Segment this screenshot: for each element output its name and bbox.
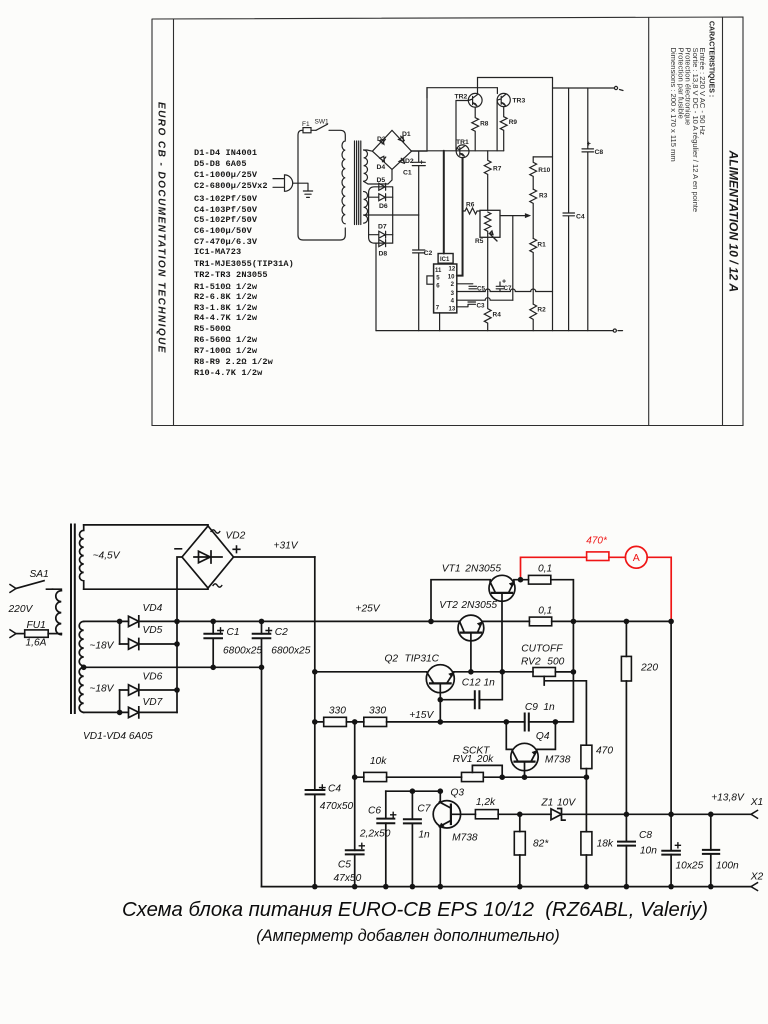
svg-text:Z1: Z1 (540, 798, 553, 809)
junction node (314.8,721.9) (312, 719, 318, 725)
wire 0,1 upper to output (551, 580, 574, 622)
resistor R2 (530, 304, 537, 331)
transistor TR1 (456, 145, 469, 158)
diode D2 mark (399, 158, 405, 163)
svg-text:470x50: 470x50 (320, 801, 354, 812)
center tap rail (84, 666, 262, 668)
capacitor C4 top-doc (563, 88, 575, 331)
svg-text:C1: C1 (227, 627, 240, 638)
+ output terminal (614, 86, 617, 89)
wire wiper corner down to pin4 line (512, 216, 514, 301)
svg-text:~18V: ~18V (89, 684, 114, 695)
resistor R3 (530, 189, 537, 238)
junction node (119.6,621.4) (117, 619, 123, 625)
wire 4.5V top to bridge (84, 525, 208, 526)
ammeter A (625, 546, 647, 568)
svg-text:1,2k: 1,2k (476, 797, 496, 808)
junction node (431,621.4) (428, 619, 434, 625)
svg-text:+31V: +31V (274, 541, 299, 552)
svg-text:18k: 18k (597, 838, 614, 849)
svg-text:R1-510Ω 1/2w: R1-510Ω 1/2w (194, 282, 258, 292)
wire D8 down to bottom rail (375, 243, 377, 331)
svg-text:R7: R7 (493, 166, 502, 173)
input terminal bottom (10, 630, 16, 638)
capacitor 10x25 (670, 814, 672, 886)
+25V rail (177, 620, 460, 622)
svg-text:13: 13 (449, 307, 456, 313)
capacitor 100n (710, 814, 712, 886)
VD2 inner diode (194, 551, 222, 563)
capacitor C1 (412, 151, 425, 215)
svg-text:IC1-MA723: IC1-MA723 (194, 247, 241, 257)
IC1 pin6 lug (427, 276, 434, 284)
Q3 collector wire (439, 791, 441, 802)
IC1 pin7 stub (439, 313, 441, 331)
C1 plus (218, 628, 223, 633)
svg-text:500: 500 (547, 656, 564, 667)
fuse FU1 (25, 630, 49, 637)
svg-text:R4-4.7K 1/2w: R4-4.7K 1/2w (194, 313, 258, 323)
output line to + terminal (553, 87, 615, 89)
wire output down to 13.8 line (670, 621, 672, 814)
svg-text:IC1: IC1 (440, 257, 450, 263)
svg-text:470: 470 (596, 746, 613, 757)
svg-text:VT2: VT2 (439, 600, 458, 611)
junction node (440.3,721.9) (438, 719, 444, 725)
diode D4 mark (380, 156, 386, 162)
svg-text:R7-100Ω 1/2w: R7-100Ω 1/2w (194, 346, 258, 356)
wire fuse to primary (48, 633, 61, 635)
red wire VT1 emitter to shunt (521, 546, 672, 620)
svg-text:M738: M738 (545, 754, 571, 765)
svg-text:R1: R1 (537, 242, 546, 249)
wire upper secondary to bridge (364, 150, 392, 184)
diode VD6 (120, 685, 177, 696)
junction node (671.1,621.4) (668, 619, 674, 625)
svg-text:+: + (420, 160, 424, 167)
wire 470 junction down to 18k (585, 777, 587, 832)
secondary winding 18V upper (79, 621, 83, 667)
svg-text:10: 10 (448, 275, 455, 281)
wire to fuse (16, 633, 25, 635)
switch SW1 (316, 124, 328, 130)
svg-text:Q2: Q2 (385, 654, 399, 665)
resistor R6 (463, 208, 481, 214)
transistor Q4 (511, 743, 538, 770)
Q3 base wire (451, 813, 476, 815)
resistor R1 (530, 238, 537, 304)
VT2 base wire (470, 633, 472, 672)
svg-text:VD5: VD5 (143, 625, 163, 636)
junction node (314.8,886.6) (312, 884, 318, 890)
zener Z1 (551, 809, 565, 821)
R10 chain top wire (533, 156, 552, 158)
VT1 base wire (501, 593, 503, 672)
output rail (482, 620, 671, 622)
capacitor C4 (306, 790, 325, 794)
junction node (502.3,671.8) (500, 669, 506, 675)
VT1 emitter wire (514, 580, 529, 582)
svg-text:R8-R9 2.2Ω 1/2w: R8-R9 2.2Ω 1/2w (194, 357, 274, 367)
svg-text:C9: C9 (525, 702, 538, 713)
junction node (555.4,721.9) (553, 719, 559, 725)
wire VD4 to VD5 (119, 621, 121, 644)
terminal X1 (751, 810, 758, 818)
svg-text:~4,5V: ~4,5V (93, 551, 121, 562)
svg-text:+13,8V: +13,8V (711, 792, 745, 803)
svg-text:47x50: 47x50 (334, 873, 362, 884)
junction node (502.2,777.2) (499, 774, 505, 780)
junction node (626.4,621.4) (624, 619, 630, 625)
svg-text:ALIMENTATION 10 / 12 A: ALIMENTATION 10 / 12 A (727, 150, 741, 293)
red wire ammeter to output (647, 557, 671, 620)
wire secondary tap to C2 line (364, 214, 419, 216)
C6 plus (391, 812, 396, 817)
svg-text:FU1: FU1 (27, 620, 46, 631)
svg-text:12: 12 (449, 267, 456, 273)
svg-text:10k: 10k (370, 756, 387, 767)
svg-text:82*: 82* (533, 838, 549, 849)
svg-text:Q4: Q4 (536, 731, 550, 742)
junction node (177,644) (174, 641, 180, 647)
junction node (354.7,721.9) (352, 719, 358, 725)
potentiometer R5 box (480, 210, 500, 237)
pin4 line with hump (457, 298, 513, 301)
svg-text:C2-6800µ/25Vx2: C2-6800µ/25Vx2 (194, 181, 268, 191)
capacitor C8 top-doc (582, 88, 594, 331)
IC1 body (434, 264, 457, 313)
pin13 wire and capacitor C3 (457, 302, 476, 307)
svg-text:1n: 1n (418, 830, 430, 841)
junction node (506.3,721.9) (504, 719, 510, 725)
svg-text:CUTOFF: CUTOFF (521, 643, 563, 654)
junction node (440.3,791.2) (438, 788, 444, 794)
capacitor C2 (261, 621, 263, 667)
svg-text:C6: C6 (368, 806, 381, 817)
svg-text:11: 11 (435, 268, 442, 274)
svg-text:10V: 10V (557, 798, 576, 809)
wire TR2 base down (456, 101, 468, 151)
diode D8 (379, 240, 386, 247)
switch SA1 (16, 581, 53, 590)
svg-text:D2: D2 (405, 158, 414, 165)
pin2 wire and capacitor C5 (457, 284, 477, 289)
junction node (470.9,671.8) (468, 669, 474, 675)
diode D3 mark (380, 139, 386, 144)
wire plug to ground (293, 183, 308, 191)
svg-text:D4: D4 (377, 164, 386, 171)
svg-text:C4: C4 (328, 784, 341, 795)
junction node (586.4,886.6) (584, 884, 590, 890)
junction node (177,621.4) (174, 619, 180, 625)
wiper line to R3/R1 junction (500, 214, 530, 217)
primary winding (56, 591, 62, 635)
TR2 collector rail (478, 78, 553, 95)
Q2 base wire down (439, 683, 441, 722)
svg-text:C8: C8 (639, 830, 652, 841)
R5 wiper arrow (490, 231, 498, 241)
pin3 line with jump humps (457, 289, 553, 292)
bottom rail top-doc (376, 330, 613, 332)
resistor 18k (581, 832, 592, 855)
ground symbol (303, 191, 312, 197)
resistor 1,2k (475, 810, 498, 819)
svg-text:C3-102Pf/50V: C3-102Pf/50V (194, 194, 258, 204)
junction node (213.2,621.4) (210, 619, 216, 625)
svg-text:0,1: 0,1 (538, 564, 552, 575)
junction node (354.7,777.2) (352, 774, 358, 780)
transformer core T1 (355, 141, 361, 225)
svg-text:VD7: VD7 (143, 697, 163, 708)
wire 18k to ground rail (585, 855, 587, 887)
wire 4.5V bottom to bridge (84, 588, 208, 589)
resistor R9 (500, 107, 507, 151)
junction node (385.8,886.6) (383, 884, 389, 890)
diode D7 (369, 231, 393, 238)
svg-text:330: 330 (369, 706, 386, 717)
svg-text:(Амперметр добавлен дополнител: (Амперметр добавлен дополнительно) (256, 927, 559, 945)
input terminal top (10, 585, 16, 593)
RV1 wiper (472, 765, 502, 777)
Q4 base wire (524, 762, 526, 778)
diode D5 (379, 183, 386, 190)
svg-text:F1: F1 (302, 121, 310, 128)
svg-text:RV1: RV1 (453, 754, 473, 765)
svg-text:R9: R9 (509, 119, 518, 126)
IC1 top box (438, 254, 453, 264)
capacitor C2 (413, 215, 425, 331)
svg-text:X1: X1 (750, 797, 763, 808)
svg-text:R2: R2 (537, 307, 546, 314)
component list (194, 148, 294, 378)
transistor Q2 (426, 665, 454, 693)
wire 470 to sckt line (585, 769, 587, 778)
capacitor C7 (411, 791, 413, 886)
junction node (626.4,814.3) (624, 812, 630, 818)
VD2 plus sign (233, 546, 240, 553)
resistor R4 (484, 292, 491, 331)
C5 plus (359, 843, 364, 848)
caracteristiques separator line (648, 18, 650, 426)
svg-text:R4: R4 (493, 312, 502, 319)
svg-text:SA1: SA1 (30, 569, 49, 580)
Q2 base to Q3 node line (386, 790, 441, 792)
svg-text:D8: D8 (379, 251, 388, 258)
minus output terminal (613, 329, 616, 332)
svg-text:R6-560Ω 1/2w: R6-560Ω 1/2w (194, 335, 258, 345)
svg-text:10x25: 10x25 (676, 861, 704, 872)
R5 zigzag (485, 212, 491, 292)
svg-text:SW1: SW1 (315, 119, 329, 126)
svg-text:R2-6.8K 1/2w: R2-6.8K 1/2w (194, 292, 258, 302)
svg-text:TR1: TR1 (456, 139, 469, 146)
resistor 470 (581, 745, 592, 768)
junction node (213.2,667.3) (210, 665, 216, 671)
svg-text:VT1: VT1 (442, 563, 461, 574)
svg-text:VD1-VD4 6A05: VD1-VD4 6A05 (83, 731, 153, 742)
terminal X2 (751, 883, 758, 891)
svg-text:2N3055: 2N3055 (464, 563, 501, 574)
transistor Q3 (433, 801, 460, 828)
svg-text:TR3: TR3 (512, 97, 525, 104)
C2 plus (266, 628, 271, 633)
svg-text:+25V: +25V (356, 604, 381, 615)
svg-text:C4-103Pf/50V: C4-103Pf/50V (194, 205, 258, 215)
svg-text:C12: C12 (462, 678, 481, 689)
svg-text:D6: D6 (379, 203, 388, 210)
capacitor C7 (496, 282, 504, 292)
secondary winding lower (364, 192, 368, 224)
svg-text:D3: D3 (377, 136, 386, 143)
secondary winding 4.5V (79, 525, 83, 589)
junction node (671.1,814.3) (668, 812, 674, 818)
svg-text:220V: 220V (8, 604, 34, 615)
svg-text:220: 220 (640, 662, 658, 673)
Q4 collector wire (506, 722, 512, 750)
heavy wire TR1 base to pin10 (457, 158, 463, 276)
junction node (83.7,667.3) (81, 665, 87, 671)
svg-text:Q3: Q3 (451, 788, 465, 799)
svg-text:D1: D1 (402, 131, 411, 138)
capacitor C5 (354, 777, 356, 886)
svg-text:C5-102Pf/50V: C5-102Pf/50V (194, 215, 258, 225)
red wire shunt to ammeter (609, 556, 626, 558)
svg-text:R3-1.8K 1/2w: R3-1.8K 1/2w (194, 303, 258, 313)
capacitor C6 (377, 819, 394, 824)
diode VD5 (120, 639, 177, 650)
diode VD7 (84, 707, 177, 718)
sidebar separator line (173, 19, 175, 426)
transistor TR3 (497, 93, 510, 106)
svg-text:~18V: ~18V (89, 641, 114, 652)
svg-text:330: 330 (329, 706, 346, 717)
C4 plus (320, 785, 325, 790)
svg-text:Dimensions : 200 x 170 x 115 m: Dimensions : 200 x 170 x 115 mm (669, 48, 678, 162)
svg-text:C2: C2 (424, 250, 433, 257)
resistor 82* (519, 814, 521, 886)
wire +31V (234, 556, 315, 558)
svg-text:R8: R8 (480, 120, 489, 127)
primary loop box (298, 130, 345, 240)
transistor TR2 (468, 93, 482, 107)
capacitor C1 (212, 621, 214, 667)
svg-text:C7: C7 (417, 803, 430, 814)
svg-text:2N3055: 2N3055 (460, 600, 497, 611)
junction node (671.1,886.6) (668, 884, 674, 890)
resistor 330 first (324, 717, 347, 726)
Q4 emitter wire (537, 722, 556, 750)
junction node (519.8,886.6) (517, 884, 523, 890)
junction node (354.7,886.6) (352, 884, 358, 890)
svg-text:TR2-TR3 2N3055: TR2-TR3 2N3055 (194, 270, 268, 280)
junction node (261.5,621.4) (259, 619, 265, 625)
junction node (119.6,712.4) (117, 710, 123, 716)
VD2 tilde bottom (213, 584, 222, 587)
TR3 collector rail from bus (426, 88, 428, 98)
10x25 plus (675, 843, 680, 848)
diode VD4 (129, 616, 178, 627)
svg-text:Схема блока питания EURO-CB EP: Схема блока питания EURO-CB EPS 10/12 (R… (122, 899, 708, 921)
svg-text:TR2: TR2 (455, 94, 468, 101)
svg-text:R6: R6 (466, 202, 475, 209)
wire VD4 anode (84, 620, 129, 622)
wire VD6 to VD7 (119, 690, 121, 712)
junction node (520.5,579.7) (518, 577, 524, 583)
bridge rectifier D1-D4 (372, 130, 411, 169)
resistor R8 (472, 107, 479, 151)
mains plug P1 (273, 175, 293, 191)
RV2 right wire (555, 671, 573, 673)
svg-text:R5-500Ω: R5-500Ω (194, 324, 231, 334)
junction node (314.8,671.8) (312, 669, 318, 675)
junction node (261.5,667.3) (259, 665, 265, 671)
junction node (573.4,671.9) (571, 669, 577, 675)
ground rail (262, 886, 752, 888)
svg-text:D7: D7 (378, 224, 387, 231)
svg-text:1n: 1n (543, 702, 555, 713)
junction node (573.4,621.4) (571, 619, 577, 625)
potentiometer RV1 (462, 772, 484, 781)
heavy wire to IC1 pin12 (443, 151, 445, 254)
diode D1 mark (399, 136, 405, 141)
+15V rail (315, 721, 525, 723)
svg-text:6800x25: 6800x25 (271, 646, 310, 657)
bridge rectifier VD2 (182, 526, 234, 588)
resistor 220 (625, 621, 627, 814)
svg-text:VD4: VD4 (143, 603, 163, 614)
svg-text:X2: X2 (750, 871, 764, 882)
wire 1,2k to Z1 (498, 813, 551, 815)
junction node (524.5,777.2) (522, 774, 528, 780)
svg-text:TR1-MJE3055(TIP31A): TR1-MJE3055(TIP31A) (194, 259, 294, 269)
svg-text:C6-100µ/50V: C6-100µ/50V (194, 226, 253, 236)
svg-text:R10-4.7K 1/2w: R10-4.7K 1/2w (194, 368, 263, 378)
Q2 base feed wire (315, 671, 427, 673)
svg-text:C1: C1 (403, 170, 412, 177)
svg-text:RV2: RV2 (521, 656, 541, 667)
top schematic drawing (273, 78, 623, 333)
junction node (412.4,886.6) (410, 884, 416, 890)
resistor 330 second (364, 717, 387, 726)
junction node (440.3,699.7) (438, 697, 444, 703)
svg-text:R5: R5 (475, 238, 484, 245)
svg-text:2,2x50: 2,2x50 (359, 829, 391, 840)
svg-text:100n: 100n (716, 861, 739, 872)
VD2 minus sign (175, 548, 182, 550)
capacitor C9 (525, 714, 529, 731)
main output line through TR1 (412, 150, 504, 152)
main bus vertical right (552, 78, 554, 331)
Q3 emitter wire (439, 827, 441, 887)
svg-text:D5-D8 6A05: D5-D8 6A05 (194, 159, 247, 169)
secondary winding upper (364, 150, 368, 181)
document outer frame (152, 17, 743, 426)
svg-text:0,1: 0,1 (538, 605, 552, 616)
svg-text:C3: C3 (477, 303, 486, 310)
resistor 10k (364, 772, 387, 781)
svg-text:D5: D5 (377, 177, 386, 184)
svg-text:C7-470µ/6.3V: C7-470µ/6.3V (194, 237, 258, 247)
Q2 emitter wire (454, 671, 533, 673)
resistor 0,1 upper (529, 575, 551, 584)
wire C2 bottom down to ground rail (261, 667, 263, 886)
transformer core (71, 525, 75, 714)
diode D6 (369, 194, 393, 201)
svg-text:EURO CB - DOCUMENTATION TECHNI: EURO CB - DOCUMENTATION TECHNIQUE (155, 102, 166, 354)
VT1 collector wire (431, 580, 490, 622)
primary winding T1 (342, 141, 345, 224)
+31V vertical (314, 557, 316, 790)
